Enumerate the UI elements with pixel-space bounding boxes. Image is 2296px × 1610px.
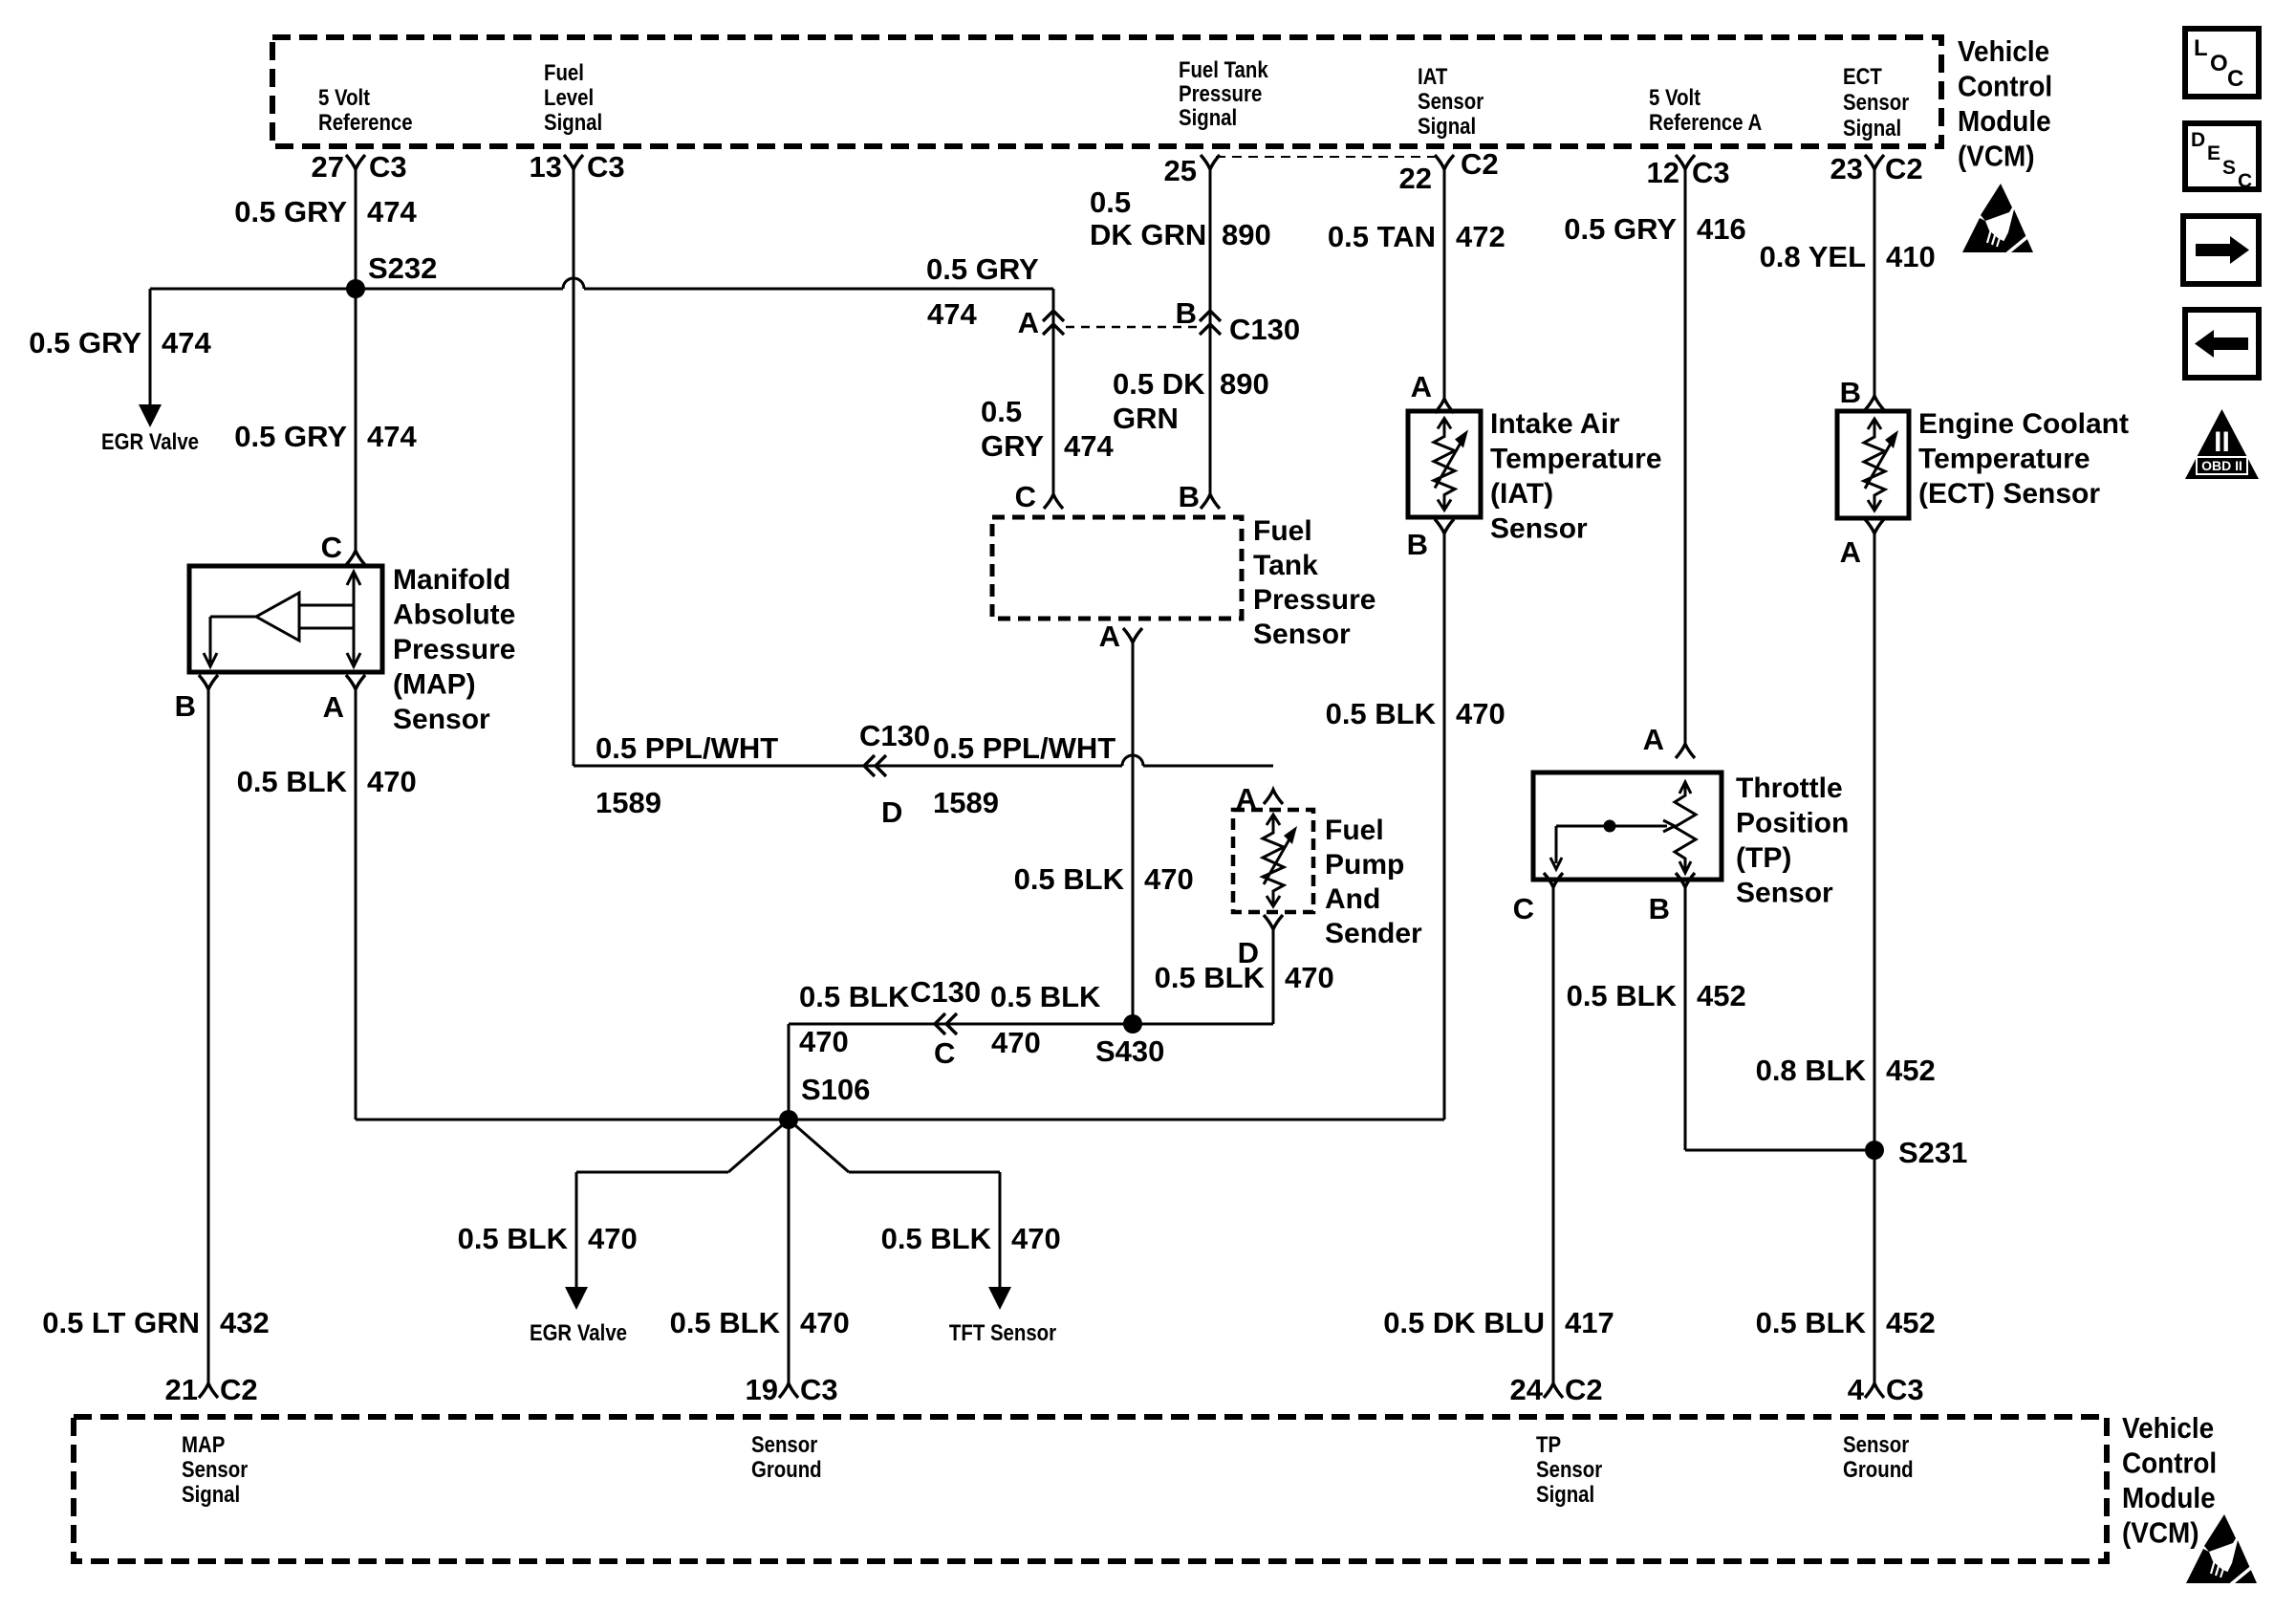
MAP sensor internal symbol	[204, 572, 360, 666]
label 0.5 PPL/WHT 1589 (left of C130 D)	[596, 731, 778, 819]
ECT sensor box	[1837, 411, 1909, 518]
label 0.5 TAN 472	[1328, 220, 1505, 253]
label 0.5 GRY 416	[1564, 212, 1745, 246]
svg-text:Fuel: Fuel	[1253, 515, 1312, 547]
svg-text:0.5 LT GRN: 0.5 LT GRN	[42, 1306, 200, 1339]
svg-text:0.5 DK BLU: 0.5 DK BLU	[1383, 1306, 1545, 1339]
label: Vehicle Control Module (VCM) bottom right	[2122, 1412, 2217, 1550]
terminal A (fuel tank pressure sensor, bottom)	[1123, 628, 1142, 642]
icon: OBD II triangle	[2185, 409, 2259, 479]
svg-text:Sensor: Sensor	[1490, 513, 1588, 545]
svg-text:(ECT) Sensor: (ECT) Sensor	[1918, 478, 2100, 510]
pin 22 C2 (IAT Sensor Signal)	[1399, 147, 1499, 195]
svg-text:C3: C3	[800, 1373, 838, 1406]
svg-text:C: C	[1015, 480, 1036, 513]
svg-text:0.5 BLK: 0.5 BLK	[881, 1222, 992, 1255]
label: Fuel Tank Pressure Sensor	[1253, 515, 1375, 650]
svg-text:470: 470	[800, 1306, 850, 1339]
wire: pin13 fuel level signal down and right to C130 D	[573, 169, 575, 766]
fuel tank pressure sensor box	[992, 517, 1242, 619]
splice S231	[1865, 1136, 1967, 1169]
wire: fuel pump D to S430	[1272, 929, 1275, 1024]
svg-text:Ground: Ground	[751, 1456, 822, 1482]
svg-text:0.8 BLK: 0.8 BLK	[1756, 1054, 1867, 1087]
svg-text:13: 13	[530, 150, 562, 184]
pin 21 C2 (MAP Sensor Signal)	[165, 1373, 258, 1406]
svg-text:OBD II: OBD II	[2201, 458, 2242, 473]
svg-text:Sensor: Sensor	[1418, 88, 1484, 114]
svg-text:Reference A: Reference A	[1649, 109, 1762, 135]
terminal B (ECT sensor)	[1865, 396, 1884, 410]
TP sensor box	[1533, 772, 1722, 880]
label: Engine Coolant Temperature (ECT) Sensor	[1918, 408, 2129, 510]
svg-text:470: 470	[1144, 862, 1194, 896]
terminal B (fuel tank pressure sensor)	[1201, 494, 1220, 509]
label 0.5 BLK 470 (sensor ground wire)	[670, 1306, 850, 1339]
VCM module box (top)	[272, 37, 1941, 146]
svg-text:Signal: Signal	[182, 1481, 240, 1507]
svg-text:Fuel: Fuel	[544, 59, 584, 85]
wire: fuel tank A down to S430	[1132, 642, 1135, 1024]
label 0.5 BLK 470 (IAT B wire)	[1326, 697, 1505, 730]
svg-text:Pressure: Pressure	[393, 634, 515, 665]
svg-text:5 Volt: 5 Volt	[318, 84, 371, 110]
svg-text:Tank: Tank	[1253, 550, 1318, 581]
wire: MAP A down to S106 bus	[355, 689, 357, 1120]
pin 25 (Fuel Tank Pressure Signal)	[1164, 154, 1220, 187]
svg-text:S430: S430	[1095, 1034, 1164, 1068]
svg-text:(TP): (TP)	[1736, 842, 1791, 874]
splice S430	[1095, 1014, 1164, 1068]
VCM pin label: MAP Sensor Signal	[182, 1431, 248, 1507]
svg-text:22: 22	[1399, 162, 1432, 195]
svg-text:1589: 1589	[596, 786, 661, 819]
label 0.5 LT GRN 432	[42, 1306, 270, 1339]
label 0.5 GRY 474 (pin 27 wire)	[234, 195, 417, 228]
svg-text:470: 470	[588, 1222, 638, 1255]
svg-text:474: 474	[367, 420, 417, 453]
svg-text:A: A	[1840, 535, 1861, 569]
svg-text:Absolute: Absolute	[393, 599, 515, 631]
wire: branch to TFT sensor	[789, 1120, 849, 1172]
terminal A (fuel pump)	[1264, 790, 1283, 804]
svg-text:0.5 PPL/WHT: 0.5 PPL/WHT	[596, 731, 778, 765]
wire: bus corner down to fuel tank C	[1052, 289, 1055, 494]
svg-text:Module: Module	[1958, 105, 2051, 139]
wire: S232 down to MAP C	[355, 289, 357, 551]
svg-text:0.5 GRY: 0.5 GRY	[234, 420, 347, 453]
svg-text:Signal: Signal	[1179, 104, 1237, 130]
svg-text:Throttle: Throttle	[1736, 772, 1843, 804]
label: Throttle Position (TP) Sensor	[1736, 772, 1849, 909]
wire: S232 bus left to EGR branch	[150, 288, 356, 291]
VCM module box (bottom)	[74, 1417, 2107, 1561]
svg-text:0.5: 0.5	[981, 395, 1022, 428]
svg-text:C: C	[1513, 892, 1534, 925]
svg-text:474: 474	[162, 326, 211, 359]
VCM pin label: TP Sensor Signal	[1536, 1431, 1602, 1507]
pin 23 C2 (ECT Sensor Signal)	[1830, 152, 1923, 185]
terminal B (TP sensor)	[1676, 873, 1695, 887]
svg-text:470: 470	[1456, 697, 1505, 730]
svg-text:0.5 BLK: 0.5 BLK	[458, 1222, 569, 1255]
svg-text:Intake Air: Intake Air	[1490, 408, 1620, 440]
svg-text:0.5 GRY: 0.5 GRY	[234, 195, 347, 228]
svg-text:0.5 BLK: 0.5 BLK	[670, 1306, 781, 1339]
svg-text:Control: Control	[2122, 1447, 2217, 1480]
label 0.5 BLK 470 (right of C130 C)	[990, 980, 1101, 1059]
svg-text:(VCM): (VCM)	[2122, 1516, 2199, 1550]
arrow to TFT Sensor	[988, 1287, 1011, 1310]
svg-text:Sensor: Sensor	[1736, 878, 1833, 909]
svg-text:27: 27	[312, 150, 344, 184]
svg-text:(VCM): (VCM)	[1958, 140, 2035, 173]
svg-text:410: 410	[1886, 240, 1936, 273]
svg-text:B: B	[1649, 892, 1670, 925]
svg-text:Fuel: Fuel	[1325, 815, 1384, 846]
svg-text:C2: C2	[1885, 152, 1923, 185]
terminal A (IAT sensor)	[1435, 399, 1454, 413]
label: Vehicle Control Module (VCM) top right	[1958, 35, 2052, 173]
splice S106	[779, 1073, 870, 1129]
svg-text:470: 470	[799, 1025, 849, 1058]
wire: S106 down to pin 19	[788, 1120, 791, 1383]
svg-text:0.5 GRY: 0.5 GRY	[29, 326, 141, 359]
svg-text:Sensor: Sensor	[1536, 1456, 1602, 1482]
svg-text:12: 12	[1647, 156, 1679, 189]
svg-text:452: 452	[1697, 979, 1746, 1012]
svg-text:Sensor: Sensor	[1843, 89, 1909, 115]
terminal D (fuel pump)	[1264, 915, 1283, 929]
svg-text:C: C	[2227, 66, 2243, 92]
svg-text:B: B	[1840, 376, 1861, 409]
svg-text:Pressure: Pressure	[1179, 80, 1262, 106]
svg-text:TFT Sensor: TFT Sensor	[949, 1319, 1056, 1345]
svg-text:0.5 GRY: 0.5 GRY	[1564, 212, 1677, 246]
svg-text:C130: C130	[859, 719, 930, 752]
wire: TP B down and right to S231	[1684, 887, 1687, 1150]
fuel pump sender resistor	[1263, 815, 1284, 906]
svg-text:Sender: Sender	[1325, 918, 1422, 949]
wire: S430 left to S106 via C130 C	[789, 1023, 1133, 1026]
wire: pin25 down through C130 B to fuel tank B	[1209, 169, 1212, 494]
dashed line C130 A-B	[1066, 326, 1198, 328]
svg-text:O: O	[2210, 51, 2228, 76]
connector C130 D chevrons	[864, 755, 875, 776]
svg-text:Position: Position	[1736, 808, 1849, 839]
label: Fuel Pump And Sender	[1325, 815, 1422, 949]
svg-text:S106: S106	[801, 1073, 870, 1106]
svg-text:4: 4	[1848, 1373, 1865, 1406]
svg-text:C2: C2	[1565, 1373, 1603, 1406]
arrow to EGR Valve (bottom)	[565, 1287, 588, 1310]
label: Manifold Absolute Pressure (MAP) Sensor	[393, 564, 515, 735]
pin 13 C3 (Fuel Level Signal)	[530, 150, 625, 184]
wire: branch to EGR valve	[728, 1120, 789, 1172]
svg-text:(MAP): (MAP)	[393, 669, 476, 701]
label 0.5 BLK 470 (fuel pump D wire)	[1155, 961, 1334, 994]
svg-text:D: D	[2191, 129, 2205, 151]
svg-text:Vehicle: Vehicle	[1958, 35, 2049, 69]
VCM pin label: Sensor Ground (right)	[1843, 1431, 1914, 1482]
VCM pin label: 5 Volt Reference	[318, 84, 413, 135]
svg-text:S232: S232	[368, 251, 437, 285]
svg-text:D: D	[881, 795, 902, 829]
svg-text:452: 452	[1886, 1054, 1936, 1087]
svg-text:B: B	[1179, 480, 1200, 513]
svg-text:470: 470	[991, 1026, 1041, 1059]
svg-text:0.5 BLK: 0.5 BLK	[799, 980, 910, 1013]
svg-text:890: 890	[1220, 367, 1269, 401]
terminal C (fuel tank pressure sensor)	[1044, 494, 1063, 509]
label 0.5 BLK 470 (left of C130 C)	[799, 980, 910, 1058]
wire: IAT B down to S106 bus	[1443, 533, 1446, 1120]
wire: pin23 down to ECT B	[1874, 169, 1876, 396]
svg-text:C130: C130	[910, 975, 981, 1009]
svg-text:0.5 BLK: 0.5 BLK	[1567, 979, 1678, 1012]
connector C130 C chevrons	[935, 1013, 945, 1034]
svg-text:(IAT): (IAT)	[1490, 478, 1553, 510]
svg-text:EGR Valve: EGR Valve	[101, 428, 199, 454]
svg-text:Module: Module	[2122, 1482, 2216, 1515]
wire: pin22 down to IAT A	[1443, 169, 1446, 399]
label 0.5 DK BLU 417	[1383, 1306, 1614, 1339]
arrow to EGR Valve (top left)	[139, 404, 162, 427]
dashed link pin25 to pin22	[1216, 156, 1435, 158]
svg-text:21: 21	[165, 1373, 198, 1406]
svg-text:Sensor: Sensor	[751, 1431, 817, 1457]
wire: pin12 down to TP A	[1684, 169, 1687, 744]
label 0.5 BLK 452 (TP B wire)	[1567, 979, 1746, 1012]
pin 4 C3 (Sensor Ground right)	[1848, 1373, 1924, 1406]
wire: EGR valve branch down	[149, 289, 152, 405]
svg-text:C3: C3	[369, 150, 407, 184]
label 0.5 GRY 474 (EGR branch)	[29, 326, 211, 359]
svg-text:Signal: Signal	[1843, 115, 1901, 141]
svg-text:Pump: Pump	[1325, 849, 1404, 881]
svg-text:19: 19	[746, 1373, 778, 1406]
svg-text:B: B	[175, 689, 196, 723]
svg-text:Sensor: Sensor	[182, 1456, 248, 1482]
icon: LOC box	[2185, 29, 2259, 97]
svg-text:0.5 DK: 0.5 DK	[1113, 367, 1205, 401]
svg-text:0.5 BLK: 0.5 BLK	[1155, 961, 1266, 994]
label 0.8 BLK 452 (ECT A wire)	[1756, 1054, 1936, 1087]
svg-text:And: And	[1325, 883, 1380, 915]
svg-text:0.5 GRY: 0.5 GRY	[926, 252, 1039, 286]
label 0.5 BLK 470 (EGR branch)	[458, 1222, 638, 1255]
svg-text:A: A	[1099, 620, 1120, 653]
svg-text:Control: Control	[1958, 70, 2052, 103]
label 0.5 PPL/WHT 1589 (right of C130 D)	[933, 731, 1116, 819]
svg-text:474: 474	[1064, 429, 1114, 463]
svg-text:A: A	[1018, 306, 1039, 339]
svg-text:A: A	[1411, 370, 1432, 403]
connector C130 A chevrons	[1043, 311, 1064, 321]
terminal A (TP sensor)	[1676, 744, 1695, 758]
label: Intake Air Temperature (IAT) Sensor	[1490, 408, 1662, 545]
label 0.5 DK GRN 890 (pin 25 wire)	[1090, 185, 1271, 251]
svg-text:890: 890	[1222, 218, 1271, 251]
svg-text:C2: C2	[1461, 147, 1499, 181]
svg-text:C: C	[321, 531, 342, 564]
svg-text:Sensor: Sensor	[1843, 1431, 1909, 1457]
icon: forward arrow box	[2183, 216, 2259, 284]
svg-text:470: 470	[1285, 961, 1334, 994]
label 0.5 BLK 470 (TFT branch)	[881, 1222, 1061, 1255]
svg-text:Signal: Signal	[1418, 113, 1476, 139]
MAP sensor box	[189, 566, 382, 672]
svg-text:452: 452	[1886, 1306, 1936, 1339]
svg-text:DK GRN: DK GRN	[1090, 218, 1206, 251]
terminal A (MAP sensor)	[346, 675, 365, 689]
svg-text:470: 470	[1011, 1222, 1061, 1255]
svg-text:0.5 TAN: 0.5 TAN	[1328, 220, 1436, 253]
svg-text:0.5 PPL/WHT: 0.5 PPL/WHT	[933, 731, 1116, 765]
svg-text:Signal: Signal	[1536, 1481, 1594, 1507]
svg-text:C: C	[934, 1036, 955, 1070]
svg-text:S231: S231	[1898, 1136, 1967, 1169]
svg-text:TP: TP	[1536, 1431, 1561, 1457]
svg-text:470: 470	[367, 765, 417, 798]
svg-text:Manifold: Manifold	[393, 564, 510, 596]
svg-text:Sensor: Sensor	[1253, 619, 1351, 650]
svg-text:1589: 1589	[933, 786, 999, 819]
svg-text:Level: Level	[544, 84, 594, 110]
svg-text:EGR Valve: EGR Valve	[530, 1319, 627, 1345]
svg-text:Fuel Tank: Fuel Tank	[1179, 56, 1268, 82]
svg-text:25: 25	[1164, 154, 1197, 187]
svg-text:A: A	[323, 690, 344, 724]
ESD warning symbol (bottom)	[2186, 1514, 2258, 1584]
svg-text:Engine Coolant: Engine Coolant	[1918, 408, 2129, 440]
fuel pump and sender box	[1233, 810, 1313, 912]
TP potentiometer symbol	[1550, 782, 1696, 873]
svg-text:GRY: GRY	[981, 429, 1044, 463]
label 0.5 DK GRN 890 (below C130 B)	[1113, 367, 1269, 435]
svg-text:Ground: Ground	[1843, 1456, 1914, 1482]
terminal C (MAP sensor)	[346, 551, 365, 565]
svg-text:II: II	[2214, 426, 2230, 458]
VCM pin label: Fuel Level Signal	[544, 59, 602, 135]
IAT sensor box	[1408, 411, 1481, 517]
wire: TP C down to pin 24	[1552, 887, 1555, 1383]
IAT thermistor symbol	[1434, 419, 1455, 511]
svg-text:Temperature: Temperature	[1918, 444, 2090, 475]
svg-text:B: B	[1176, 296, 1197, 330]
wire: MAP B down to pin 21	[207, 689, 210, 1383]
terminal B (IAT sensor)	[1435, 519, 1454, 533]
svg-text:GRN: GRN	[1113, 402, 1179, 435]
wire: S232 bus right with hop over fuel level wire	[356, 288, 563, 291]
svg-text:23: 23	[1830, 152, 1863, 185]
svg-text:5 Volt: 5 Volt	[1649, 84, 1701, 110]
svg-text:ECT: ECT	[1843, 63, 1882, 89]
VCM pin label: IAT Sensor Signal	[1418, 63, 1484, 139]
svg-text:472: 472	[1456, 220, 1505, 253]
VCM pin label: Sensor Ground (center)	[751, 1431, 822, 1482]
label 0.8 YEL 410	[1760, 240, 1936, 273]
svg-text:C: C	[2238, 170, 2252, 192]
splice S232	[346, 251, 437, 298]
svg-text:0.5 BLK: 0.5 BLK	[990, 980, 1101, 1013]
svg-text:24: 24	[1510, 1373, 1544, 1406]
svg-text:S: S	[2222, 157, 2236, 179]
label 0.5 GRY / 474 (bus to C130 A)	[926, 252, 1039, 331]
svg-text:0.5 BLK: 0.5 BLK	[1326, 697, 1437, 730]
VCM pin label: 5 Volt Reference A	[1649, 84, 1762, 135]
svg-text:Sensor: Sensor	[393, 704, 490, 735]
svg-text:0.5: 0.5	[1090, 185, 1131, 219]
svg-text:Reference: Reference	[318, 109, 413, 135]
wire: pin27 down to S232	[355, 169, 357, 289]
svg-text:C3: C3	[1886, 1373, 1924, 1406]
ESD warning symbol (top)	[1962, 184, 2034, 253]
icon: DESC box	[2185, 123, 2259, 192]
ECT thermistor symbol	[1864, 419, 1885, 511]
terminal A (ECT sensor)	[1865, 519, 1884, 533]
svg-text:474: 474	[927, 297, 977, 331]
wire: ECT A down through S231 to pin 4	[1874, 533, 1876, 1383]
svg-text:A: A	[1643, 723, 1664, 756]
label 0.5 BLK 452 (below S231)	[1756, 1306, 1936, 1339]
terminal B (MAP sensor)	[199, 675, 218, 689]
wire: S106 ground bus	[356, 1119, 1444, 1121]
pin 19 C3 (Sensor Ground)	[746, 1373, 838, 1406]
svg-text:Vehicle: Vehicle	[2122, 1412, 2214, 1446]
svg-text:C3: C3	[587, 150, 625, 184]
svg-text:Signal: Signal	[544, 109, 602, 135]
svg-text:Temperature: Temperature	[1490, 444, 1662, 475]
VCM pin label: ECT Sensor Signal	[1843, 63, 1909, 141]
icon: back arrow box	[2185, 310, 2259, 378]
svg-text:Pressure: Pressure	[1253, 584, 1375, 616]
svg-text:0.5 BLK: 0.5 BLK	[1014, 862, 1125, 896]
svg-text:C130: C130	[1229, 313, 1300, 346]
VCM pin label: Fuel Tank Pressure Signal	[1179, 56, 1268, 130]
svg-text:MAP: MAP	[182, 1431, 225, 1457]
connector C130 B chevrons	[1200, 311, 1221, 321]
pin 24 C2 (TP Sensor Signal)	[1510, 1373, 1603, 1406]
pin 27 C3 (5 Volt Reference)	[312, 150, 407, 184]
svg-text:E: E	[2207, 142, 2220, 164]
terminal C (TP sensor)	[1544, 873, 1563, 887]
svg-text:C2: C2	[220, 1373, 258, 1406]
svg-text:474: 474	[367, 195, 417, 228]
label 0.5 GRY 474 (below C130 A)	[981, 395, 1114, 463]
svg-text:L: L	[2194, 35, 2208, 61]
pin 12 C3 (5 Volt Reference A)	[1647, 155, 1730, 189]
svg-text:417: 417	[1565, 1306, 1614, 1339]
svg-text:B: B	[1407, 528, 1428, 561]
svg-text:0.5 BLK: 0.5 BLK	[237, 765, 348, 798]
label 0.5 GRY 474 (to MAP sensor)	[234, 420, 417, 453]
label 0.5 BLK 470 (MAP A wire)	[237, 765, 417, 798]
svg-text:C3: C3	[1692, 156, 1730, 189]
svg-text:416: 416	[1697, 212, 1746, 246]
svg-text:IAT: IAT	[1418, 63, 1448, 89]
svg-text:0.5 BLK: 0.5 BLK	[1756, 1306, 1867, 1339]
svg-text:0.8 YEL: 0.8 YEL	[1760, 240, 1866, 273]
label 0.5 BLK 470 (fuel tank A wire)	[1014, 862, 1194, 896]
svg-text:432: 432	[220, 1306, 270, 1339]
